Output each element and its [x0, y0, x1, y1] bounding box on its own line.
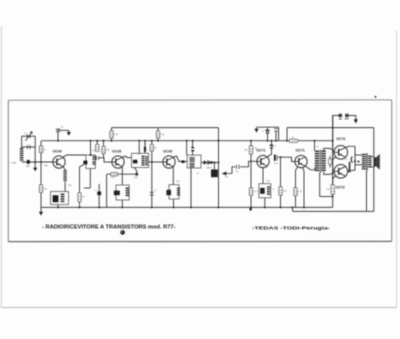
wire blob to AGC — [80, 164, 85, 166]
page edge left — [0, 26, 2, 308]
wire T2 sec to Q3 base — [149, 161, 163, 163]
output transformer T5 secondary — [368, 156, 371, 157]
resistor R1 — [39, 146, 42, 153]
node jog — [292, 206, 294, 208]
node box rail — [57, 206, 59, 208]
thermistor TH1 — [349, 162, 351, 170]
capacitor C3 tap blob — [27, 160, 30, 164]
resistor R15 — [279, 187, 282, 195]
antenna coil L1 — [20, 148, 24, 149]
wire Q3 collector — [173, 156, 187, 162]
wire C4 to rail — [57, 132, 59, 141]
wire Q4 collector — [267, 150, 271, 157]
node railAB join — [286, 140, 288, 142]
wire Q5 emitter — [303, 168, 305, 171]
driver transformer T4 primary — [315, 151, 319, 152]
wire T4 sec bottom to Q7 base — [324, 172, 335, 175]
resistor R10 in box — [126, 188, 129, 189]
transistor Q5 OC71 — [295, 155, 307, 167]
electrolytic C18 coupling — [274, 155, 276, 161]
wire Q6 emitter — [333, 157, 337, 160]
wire battery down — [332, 116, 334, 197]
wire Q5 emitter drop — [303, 171, 305, 207]
IF transformer T1 box — [86, 155, 96, 169]
node pot top — [213, 162, 215, 164]
node C11 rail — [151, 206, 153, 208]
wire R18 drop — [296, 166, 299, 170]
T4 core — [319, 150, 321, 173]
T3 winding lower — [190, 162, 195, 165]
node R11 base — [151, 161, 153, 163]
resistor R5 — [103, 154, 105, 158]
wire R18 line — [295, 170, 297, 188]
page edge bottom — [1, 307, 396, 309]
node R8 rail — [157, 140, 159, 142]
T5 core — [366, 153, 368, 171]
svg-text:OC72: OC72 — [336, 137, 345, 141]
wire pot top — [213, 163, 215, 170]
node bias mid — [250, 160, 252, 162]
capacitor C4 bypass — [56, 128, 60, 131]
bottom rail ground — [41, 206, 333, 208]
transistor Q4 OC71 — [257, 155, 269, 167]
resistor R14 — [249, 188, 252, 195]
electrolytic C10 — [144, 147, 146, 152]
IF transformer T2 box — [132, 153, 149, 167]
node box4 rail — [264, 206, 266, 208]
wire right side return — [373, 128, 375, 212]
resistor R20 — [331, 185, 334, 194]
battery terminal minus — [338, 114, 342, 118]
wire rail A audio drop — [286, 128, 288, 141]
wire T4 primary feed — [314, 141, 316, 151]
node bias bottom — [250, 206, 252, 208]
node R7 rail — [111, 140, 113, 142]
wire Q2 collector — [122, 156, 131, 158]
resistor R18 — [295, 196, 297, 208]
wire AGC-volume drop — [218, 141, 220, 208]
electrolytic C13 — [191, 147, 194, 149]
diode D1 OA79 — [204, 160, 208, 164]
resistor R9 emitter — [111, 173, 118, 176]
svg-text:L.RM: L.RM — [11, 163, 16, 165]
resistor R6 — [78, 193, 81, 202]
emitter network box Q3 — [169, 185, 179, 199]
wire battery right — [349, 116, 356, 120]
wire rail jog — [292, 207, 294, 211]
svg-text:OC45: OC45 — [163, 150, 172, 154]
node interstage — [280, 156, 282, 158]
rail A audio supply — [287, 127, 374, 129]
node C13 rail — [192, 140, 194, 142]
wire Q4 emitter — [262, 168, 264, 184]
wire T1 sec to Q2 base — [99, 158, 112, 162]
output transformer T5 primary — [362, 154, 366, 155]
wire tank mid — [22, 146, 36, 148]
blob below rail — [249, 208, 252, 211]
node T3 rail — [186, 140, 188, 142]
node T5 tap — [358, 161, 360, 163]
wire battery left — [333, 116, 339, 197]
wire Q1 collector — [63, 155, 86, 157]
wire collector bus — [354, 146, 356, 170]
node battery railA — [332, 127, 334, 129]
border frame bottom — [8, 240, 391, 242]
node Q5 emitter rail — [303, 206, 305, 208]
node C16 rail — [275, 140, 277, 142]
wire box4 to rail — [264, 198, 266, 208]
wire Q7 collector — [347, 169, 355, 171]
wire Q2 emitter — [121, 167, 123, 185]
wire tank right — [34, 136, 36, 162]
capacitor C19 in box — [260, 188, 265, 194]
emitter network box Q4 — [259, 184, 271, 198]
wire T4 center tap — [319, 173, 321, 197]
resistor R17 rail decoupling — [290, 139, 298, 142]
loudspeaker LS1 — [374, 157, 376, 166]
node C10 rail — [144, 140, 146, 142]
node box2 rail — [121, 206, 123, 208]
capacitor C8 in box — [114, 191, 120, 196]
resistor R12 in box — [177, 188, 180, 189]
wire T5 sec top — [372, 156, 375, 158]
wire T5 top feed — [355, 154, 362, 156]
driver transformer T4 secondary — [322, 151, 326, 152]
node tank-gnd — [34, 161, 36, 163]
wire AGC drop — [79, 167, 81, 208]
IF transformer T3 box — [187, 155, 201, 168]
wire decouple corner — [278, 127, 280, 141]
wire Q4 to Q5 base — [278, 157, 295, 161]
blob T3 input — [181, 160, 184, 163]
ground main rail left end — [40, 207, 42, 211]
node C4 rail — [57, 140, 59, 142]
T2 winding right — [145, 156, 148, 157]
wire T1 bottom stub — [89, 169, 91, 189]
wire return to rail — [332, 197, 334, 208]
svg-text:OA79: OA79 — [206, 166, 212, 169]
page edge right — [396, 30, 398, 308]
curve element — [351, 156, 352, 162]
wire T5 bottom feed — [355, 164, 362, 166]
battery terminal plus — [345, 114, 349, 118]
variable capacitor C1 tuning — [26, 134, 29, 138]
rail B main supply — [42, 140, 333, 142]
node T3 rail bottom — [190, 206, 192, 208]
wire wiper to cap — [232, 167, 236, 174]
border frame right — [391, 100, 393, 242]
capacitor C14 coupling — [235, 165, 238, 169]
node vert rail bottom — [218, 206, 220, 208]
svg-text:-TEDAS -TODI-Perugia-: -TEDAS -TODI-Perugia- — [252, 225, 331, 230]
wire T1 feed — [90, 141, 92, 155]
capacitor C7 T1 tuning — [95, 156, 98, 160]
resistor R7 — [111, 128, 113, 131]
transistor Q6 OC72 — [334, 146, 348, 160]
node R5 rail — [103, 140, 105, 142]
node C15 rail — [267, 140, 269, 142]
wire divider — [40, 141, 42, 208]
svg-text:- RADIORICEVITORE A TRANSISTOR: - RADIORICEVITORE A TRANSISTORS mod. R77… — [42, 225, 176, 231]
electrolytic C15 — [266, 130, 270, 132]
resistor R11 — [151, 141, 153, 145]
svg-text:OC71: OC71 — [256, 149, 265, 153]
wire Q1 emitter — [63, 167, 65, 170]
node base junction — [40, 161, 42, 163]
ground tank — [34, 162, 36, 168]
resistor R19 bias — [329, 159, 332, 165]
resistor R13 — [249, 146, 252, 154]
polarity marks — [339, 118, 342, 121]
node T4 rail — [314, 140, 316, 142]
capacitor C11 — [150, 191, 154, 194]
potentiometer P1 volume — [211, 170, 218, 178]
capacitor C9 blob — [133, 160, 138, 164]
wire emitter row — [107, 173, 137, 175]
rail A IF supply — [112, 127, 219, 129]
wire T5 tap down — [366, 171, 368, 212]
wire R5 drop — [103, 141, 105, 147]
wire box to rail — [57, 205, 59, 208]
transistor Q7 OC72 — [334, 165, 348, 179]
svg-text:TAP: TAP — [26, 165, 30, 168]
wire stub left — [84, 187, 90, 189]
wire C20 drop — [98, 184, 100, 207]
node R4 rail — [96, 140, 98, 142]
node R6 rail — [79, 206, 81, 208]
transistor Q2 OC45 — [112, 156, 124, 168]
capacitor C5 in box — [53, 195, 59, 202]
capacitor C16 — [274, 127, 278, 130]
capacitor C12 in box — [166, 190, 171, 195]
bottom rail right section — [293, 210, 374, 212]
svg-text:OC44: OC44 — [53, 150, 62, 154]
T2 winding left — [142, 156, 145, 157]
ground battery — [354, 119, 358, 123]
wire T5 sec bottom — [372, 166, 375, 168]
wire rail A left drop — [218, 128, 220, 141]
wire box3 to rail — [173, 199, 175, 207]
svg-text:OC45: OC45 — [112, 150, 121, 154]
arrow of C1 — [25, 132, 32, 141]
wire C16 down — [275, 131, 277, 141]
svg-text:OC72: OC72 — [336, 185, 345, 189]
resistor R4 — [96, 141, 98, 145]
wire cap to Q4 base — [240, 161, 257, 167]
node R11 rail — [151, 140, 153, 142]
T1 winding upper — [92, 155, 95, 158]
wire Q3 emitter — [172, 167, 174, 185]
wire L2 to box — [64, 182, 66, 192]
resistor R2 — [39, 185, 42, 192]
T3 winding upper — [190, 157, 195, 158]
node C20 rail — [98, 206, 100, 208]
node blob1 — [135, 173, 138, 176]
transistor Q3 OC45 — [163, 156, 175, 168]
node mid collector — [354, 160, 356, 162]
node R15 rail — [280, 206, 282, 208]
border frame left — [7, 100, 9, 241]
wire T2 feed — [138, 141, 140, 155]
emitter network box Q1 — [51, 192, 69, 205]
emitter network box Q2 — [116, 185, 129, 200]
node det out — [218, 162, 220, 164]
ground top-left — [68, 130, 70, 132]
wire Q7 emitter — [333, 176, 337, 179]
svg-text:4µF: 4µF — [134, 177, 138, 179]
node bias rail — [250, 140, 252, 142]
electrolytic C17 — [270, 145, 273, 147]
wire emitter row drop — [106, 174, 108, 207]
resistor R16 in box — [267, 186, 270, 187]
wire tank bottom to base — [22, 161, 53, 163]
resistor R3 in box — [61, 194, 65, 195]
node T2 rail — [138, 140, 140, 142]
wire T3 feed — [186, 141, 188, 155]
wire T3 bottom — [190, 168, 192, 207]
svg-text:OC71: OC71 — [296, 149, 305, 153]
oscillator coil L2 — [63, 170, 66, 171]
node battery railB — [332, 140, 334, 142]
wire box2 to rail — [121, 200, 123, 207]
ground decouple — [256, 127, 258, 129]
wire decouple top — [257, 126, 279, 128]
node emitter return — [332, 196, 334, 198]
wire coil top up — [21, 136, 23, 148]
wiper arrow P1 — [223, 172, 232, 175]
wire R11 down — [151, 162, 153, 207]
node vert railB — [218, 140, 220, 142]
wire T4 sec top to Q6 base — [324, 148, 335, 151]
T1 winding lower — [92, 160, 95, 163]
border frame top — [8, 99, 391, 101]
trimmer capacitor C2 — [26, 145, 29, 149]
registration dot — [120, 230, 125, 235]
wire tank top — [22, 135, 36, 137]
wire bias return — [320, 196, 333, 198]
speck above frame — [375, 96, 377, 98]
wire R15 line — [280, 157, 282, 207]
resistor R8 — [157, 128, 159, 131]
node T1 rail — [90, 140, 92, 142]
capacitor C6 padder blob — [83, 161, 87, 165]
wire T2 to blob — [134, 168, 137, 175]
wire Q5 collector to T4 — [305, 166, 315, 170]
electrolytic C20 blob — [97, 192, 101, 196]
node box3 rail — [173, 206, 175, 208]
wire bias line — [250, 141, 252, 208]
transistor Q1 OC44 — [53, 156, 65, 168]
node T1 top — [90, 154, 92, 156]
wire detector — [201, 162, 219, 164]
wire bypass top — [57, 129, 69, 131]
wire Q6 collector — [345, 146, 355, 148]
node C17 rail — [271, 140, 273, 142]
